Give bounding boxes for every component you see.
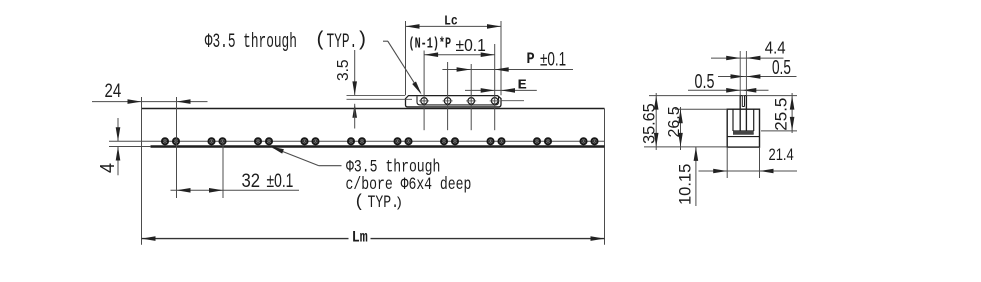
slot hole 1 [419, 98, 429, 105]
dim 24 extension line x=176 [176, 97, 178, 198]
ext line slot hole1 [423, 51, 425, 131]
svg-text:Φ3.5 through: Φ3.5 through [205, 31, 297, 54]
counterbored hole 3b [266, 138, 272, 144]
counterbored hole 5a [348, 138, 354, 144]
body bottom ext left [644, 146, 727, 148]
rail right edge / extension line [604, 109, 606, 245]
dim 4 line upper [117, 118, 119, 141]
slot outline [406, 96, 502, 107]
counterbored hole 8a [488, 138, 494, 144]
svg-text:0.5: 0.5 [772, 56, 791, 78]
slot top edge ext left [347, 94, 406, 96]
counterbored hole 9a [534, 138, 540, 144]
counterbored hole 6a [395, 138, 401, 144]
blade slit bottom [742, 106, 744, 108]
slot hole4 centerline ext right [501, 100, 525, 102]
dim 3.5 lower arrow [352, 104, 357, 118]
rail top edge [142, 108, 605, 110]
svg-text:±0.1: ±0.1 [540, 49, 566, 70]
dim 35.65 arrows [654, 96, 659, 147]
leader to slot hole [383, 41, 422, 94]
svg-text:21.4: 21.4 [769, 147, 794, 165]
svg-text:0.5: 0.5 [695, 69, 715, 92]
svg-text:4.4: 4.4 [765, 38, 786, 57]
svg-text:E: E [518, 78, 528, 93]
rail bottom edge / Lm dim line right [371, 238, 605, 240]
leader to c/bore hole [270, 146, 342, 165]
counterbored hole 4a [302, 138, 308, 144]
body inner slot left [732, 109, 734, 131]
counterbored hole 10b [592, 138, 598, 144]
slot hole 3 [466, 98, 476, 105]
svg-text:(N-1)*P: (N-1)*P [409, 36, 452, 52]
section body outline [727, 109, 759, 147]
slot hole 4 [490, 98, 500, 105]
dim 24 left arrow [128, 99, 142, 104]
dim 26.5 line [680, 107, 682, 150]
dim 3.5 line upper [354, 50, 356, 95]
svg-text:35.65: 35.65 [641, 103, 659, 144]
dim Lc line [406, 25, 502, 27]
section blade top ext line [649, 95, 797, 97]
svg-text:Lm: Lm [352, 230, 368, 247]
dim 0.5 line [718, 76, 797, 78]
counterbored hole 3a [255, 138, 261, 144]
svg-text:P: P [527, 51, 535, 68]
dim 25.5 arrows [790, 96, 795, 131]
counterbored hole 7b [452, 138, 458, 144]
dim 3.5 line lower [354, 104, 356, 129]
rail hole centerline [109, 140, 605, 142]
dim Lc right arrow [487, 24, 501, 29]
svg-text:): ) [356, 30, 368, 53]
ext line slot hole3 [470, 64, 472, 130]
dim 4 line lower [117, 147, 119, 176]
ext line slot hole4 [494, 44, 496, 130]
dim P left arrow [457, 67, 471, 72]
svg-text:Lc: Lc [444, 14, 458, 29]
dim 35.65 line [655, 93, 657, 150]
dim 0.5 arrows [731, 74, 761, 79]
slot inner groove [417, 96, 499, 105]
dim 24 right arrow [177, 99, 191, 104]
counterbored hole 2b [220, 138, 226, 144]
dim P line [442, 69, 573, 71]
counterbored hole 7a [441, 138, 447, 144]
note c/bore line3 [354, 192, 403, 212]
dim P right arrow [495, 67, 509, 72]
dim 32 right arrow [209, 188, 223, 193]
dim 4 extension line [109, 146, 151, 148]
rail groove edge (thick) [151, 145, 605, 147]
svg-text:24: 24 [105, 80, 122, 101]
dim E right arrow [501, 88, 515, 93]
dim 24 line [92, 101, 208, 103]
counterbored hole 4b [313, 138, 319, 144]
dim 10.15 arrow [694, 147, 699, 161]
dim 32 extension line x=223 [222, 142, 224, 198]
slot bottom ext right [761, 130, 797, 132]
svg-text:25.5: 25.5 [772, 98, 791, 131]
dim Lc left arrow [406, 24, 420, 29]
ext line slot right [500, 21, 502, 95]
note through TYP [315, 30, 369, 54]
dim 32 line [171, 189, 300, 191]
Lm left arrow [142, 236, 156, 241]
svg-text:32: 32 [241, 170, 260, 191]
dim (N-1)*P right arrow [481, 52, 495, 57]
svg-text:±0.1: ±0.1 [456, 35, 486, 55]
blade ext lines up [740, 51, 746, 96]
dim 4.4 arrows [726, 56, 760, 61]
svg-text:10.15: 10.15 [677, 164, 695, 205]
dim 21.4 arrows [713, 169, 773, 174]
dim E left arrow [481, 88, 495, 93]
rail bottom edge / Lm dim line left [142, 238, 349, 240]
dim 4.4 line [711, 57, 784, 59]
counterbored hole 6b [406, 138, 412, 144]
dim 3.5 upper arrow [352, 81, 357, 95]
dim 25.5 line [791, 93, 793, 133]
body inner slot right [753, 109, 755, 131]
svg-text:26.5: 26.5 [666, 106, 683, 137]
dim (N-1)*P left arrow [424, 52, 438, 57]
body bottom ext verticals [727, 147, 759, 178]
dim 0.5 left arrows [726, 88, 756, 93]
counterbored hole 5b [359, 138, 365, 144]
blade left wall [740, 96, 742, 131]
dim 0.5 left line [688, 89, 769, 91]
counterbored hole 1a [162, 138, 168, 144]
dim 32 left arrow [177, 188, 191, 193]
counterbored hole 9b [545, 138, 551, 144]
body slot bottom band [733, 131, 754, 134]
slot hole1 centerline ext left [347, 98, 413, 100]
body internal line [727, 136, 759, 138]
counterbored hole 1b [173, 138, 179, 144]
svg-text:4: 4 [97, 163, 119, 173]
dim 26.5 arrows [678, 109, 683, 147]
dim E line [465, 89, 537, 91]
svg-text:(: ( [315, 30, 327, 53]
Lm right arrow [591, 236, 605, 241]
body top ext left [675, 108, 727, 110]
counterbored hole 10a [581, 138, 587, 144]
rail left edge / extension line [141, 97, 143, 245]
svg-text:(: ( [354, 193, 365, 213]
counterbored hole 8b [499, 138, 505, 144]
dim 4 upper arrow [116, 127, 121, 141]
ext line slot left [405, 21, 407, 95]
svg-text:3.5: 3.5 [335, 59, 352, 81]
svg-text:TYP.: TYP. [327, 31, 358, 54]
dim 10.15 line [695, 147, 697, 206]
dim 21.4 line [699, 170, 798, 172]
svg-text:±0.1: ±0.1 [267, 170, 294, 192]
counterbored hole 2a [209, 138, 215, 144]
slot hole 2 [443, 98, 453, 105]
dim (N-1)*P line [424, 54, 495, 56]
dim 4 lower arrow [116, 147, 121, 161]
blade right wall [745, 96, 747, 131]
ext line slot hole2 [447, 62, 449, 130]
svg-text:): ) [395, 196, 403, 212]
